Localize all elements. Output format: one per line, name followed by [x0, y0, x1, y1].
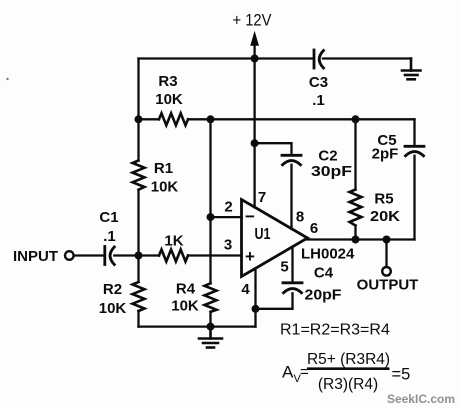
resistor R1	[133, 161, 145, 190]
wire pin 8	[290, 165, 292, 229]
capacitor C5	[405, 146, 424, 156]
wire left rail mid	[137, 190, 139, 282]
wire output row	[306, 238, 415, 240]
svg-text:C3: C3	[309, 74, 328, 91]
svg-text:10K: 10K	[151, 179, 179, 196]
wire R3 row right	[188, 118, 415, 120]
wire pin4 drop to ground bus	[254, 309, 256, 327]
svg-text:.1: .1	[312, 92, 325, 109]
svg-text:=5: =5	[392, 366, 411, 384]
svg-text:C4: C4	[314, 265, 334, 282]
capacitor C2	[282, 155, 301, 165]
wire input to C1	[74, 254, 105, 256]
svg-text:.1: .1	[103, 228, 116, 245]
svg-text:1K: 1K	[164, 233, 183, 250]
wire pin 4	[254, 268, 256, 309]
svg-text:R4: R4	[176, 281, 196, 298]
node V+ / C2	[251, 139, 259, 147]
svg-text:INPUT: INPUT	[13, 248, 58, 265]
op-amp U1	[242, 200, 308, 277]
wire pin 5	[291, 247, 293, 283]
resistor R4	[205, 283, 217, 312]
node output terminal	[383, 236, 391, 244]
node R3 / mid rail	[207, 115, 215, 123]
input terminal	[65, 251, 74, 260]
capacitor C4	[283, 283, 302, 293]
node mid rail / pin2	[207, 213, 215, 221]
svg-text:10K: 10K	[171, 298, 199, 315]
svg-text:6: 6	[310, 220, 318, 237]
node left rail / R3	[135, 115, 143, 123]
svg-text:10K: 10K	[99, 300, 127, 317]
svg-text:U1: U1	[255, 226, 271, 243]
svg-text:7: 7	[258, 189, 266, 206]
wire R5 bottom	[354, 226, 356, 240]
wire mid rail bottom	[209, 312, 211, 327]
capacitor C3	[314, 50, 324, 68]
+12V supply arrow	[251, 33, 258, 59]
svg-text:R3: R3	[158, 73, 177, 90]
resistor R5	[350, 190, 362, 226]
node C1 / left rail	[135, 252, 143, 260]
wire ground bus bottom	[139, 325, 256, 327]
wire R5 top	[354, 119, 356, 189]
resistor 1K	[159, 250, 188, 262]
svg-text:30pF: 30pF	[311, 163, 352, 180]
wire top rail left	[139, 57, 314, 59]
svg-text:−: −	[245, 207, 255, 226]
svg-text:R5: R5	[374, 191, 393, 208]
resistor R3	[159, 113, 188, 125]
svg-text:5: 5	[280, 259, 288, 276]
resistor R2	[133, 282, 145, 311]
svg-text:10K: 10K	[155, 91, 183, 108]
wire 1K to pin 3	[188, 254, 242, 256]
svg-text:OUTPUT: OUTPUT	[357, 277, 419, 294]
svg-text:8: 8	[296, 209, 304, 226]
wire left rail	[137, 59, 139, 161]
svg-text:2: 2	[224, 199, 232, 216]
output terminal	[382, 267, 391, 276]
node R3 row / R5	[352, 115, 360, 123]
svg-text:4: 4	[241, 281, 250, 298]
wire C5 to output rail	[413, 156, 415, 240]
svg-text:+ 12V: + 12V	[233, 11, 273, 30]
wire C5 right drop	[413, 119, 415, 146]
svg-text:LH0024: LH0024	[301, 246, 355, 263]
svg-text:R1: R1	[154, 160, 173, 177]
svg-text:20pF: 20pF	[305, 287, 342, 304]
wire C1 to rail	[114, 254, 159, 256]
wire output stub	[385, 240, 387, 267]
ground bottom	[199, 327, 222, 348]
node pin4 / C4	[252, 305, 260, 313]
wire left rail bottom	[137, 311, 139, 327]
capacitor C1	[105, 247, 115, 265]
svg-text:+: +	[245, 247, 255, 266]
svg-text:R1=R2=R3=R4: R1=R2=R3=R4	[280, 322, 390, 339]
svg-text:A: A	[282, 363, 294, 382]
wire V+ rail pin7	[253, 59, 255, 208]
scan speck	[6, 78, 8, 80]
svg-text:C1: C1	[99, 209, 118, 226]
svg-text:R2: R2	[103, 281, 122, 298]
wire top rail right	[323, 57, 411, 59]
svg-text:SeekIC.com: SeekIC.com	[387, 392, 455, 406]
wire mid rail top	[209, 119, 211, 283]
formula fraction bar	[307, 367, 390, 370]
node top rail / V+	[251, 55, 259, 63]
node output / R5	[352, 236, 360, 244]
wire C2 branch	[255, 143, 292, 155]
svg-text:C2: C2	[318, 148, 337, 165]
svg-text:(R3)(R4): (R3)(R4)	[318, 376, 378, 393]
svg-text:20K: 20K	[370, 208, 400, 225]
ground top-right	[402, 59, 421, 80]
wire R3 row left	[139, 118, 160, 120]
svg-text:=: =	[300, 364, 309, 381]
svg-text:R5+ (R3R4): R5+ (R3R4)	[307, 351, 390, 368]
wire pin 2	[211, 216, 242, 218]
node ground bus	[207, 323, 215, 331]
svg-text:3: 3	[224, 237, 232, 254]
svg-text:2pF: 2pF	[372, 146, 399, 163]
wire C4 branch	[256, 293, 293, 309]
